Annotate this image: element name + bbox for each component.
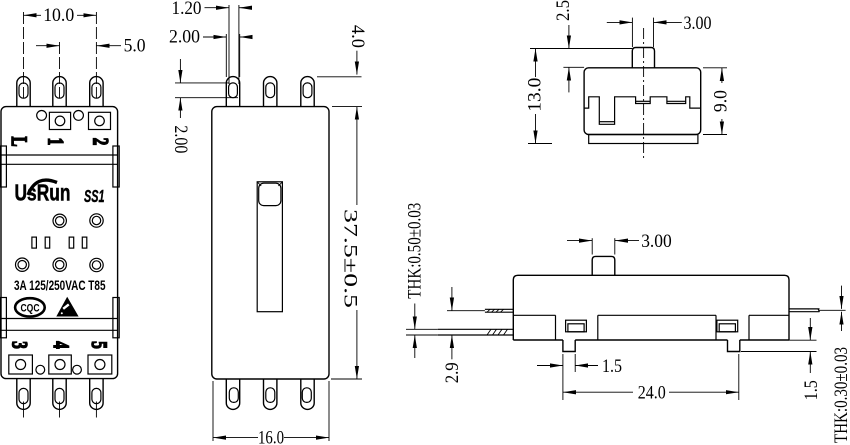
right boss outer <box>717 320 738 332</box>
dim 2.00 (hole height) lower arrow <box>179 98 181 118</box>
lower-left terminal <box>438 328 514 330</box>
dim 10.0 extension line left (pin centerline) <box>23 12 25 99</box>
dim 10.0 extension line right (pin centerline) <box>95 12 97 99</box>
bottom edge segments <box>513 339 563 341</box>
body outline (side view) <box>513 275 789 340</box>
dim 9.0 lower arrow <box>721 119 723 135</box>
bottom pin 4 hole <box>266 388 275 403</box>
right foot <box>728 340 740 352</box>
switch body (front view) <box>1 107 118 379</box>
cover tab right vertical 1 <box>715 315 717 340</box>
top rivet hole right <box>74 111 84 121</box>
right terminal <box>789 308 820 310</box>
cert triangle mark <box>56 297 78 317</box>
svg-text:1.20: 1.20 <box>172 0 202 19</box>
top terminal square 1 circle <box>55 116 65 126</box>
svg-text:2: 2 <box>88 138 113 146</box>
dim 3.00 right arrow and tail <box>654 21 682 23</box>
dim 1.5 (right) extension lines <box>789 339 817 341</box>
frame clip lower-right <box>113 298 119 338</box>
top terminal square 2 <box>89 112 111 129</box>
dim 1.20 extension lines <box>228 5 230 84</box>
svg-text:2.00: 2.00 <box>170 125 191 153</box>
bottom pin 5 <box>90 379 103 410</box>
svg-text:4: 4 <box>48 341 73 349</box>
bottom pin 3 <box>226 379 239 409</box>
dim 5.0 right arrow <box>96 45 121 47</box>
dim 1.5 (right) lower arrow <box>809 352 811 374</box>
dim 24.0 right arrow <box>669 391 739 393</box>
bottom pin 4 <box>264 379 277 409</box>
cover tab left vertical 2 <box>597 315 599 340</box>
lower-left terminal extension lines <box>406 328 438 330</box>
dim 3.00 left arrow <box>607 21 633 23</box>
base plate (end view) <box>589 135 698 144</box>
svg-text:5: 5 <box>86 341 111 349</box>
dim 4.0 extension line (pin top) <box>317 76 362 78</box>
top pin 2 <box>53 77 66 107</box>
bottom pin 5 hole <box>302 388 311 403</box>
dim 16.0 extension lines <box>212 381 214 441</box>
svg-text:3A 125/250VAC T85: 3A 125/250VAC T85 <box>14 278 106 293</box>
dim 5.0 extension line middle (pin centerline) <box>59 42 61 99</box>
dim 1.5 (left foot) extension lines <box>562 354 564 400</box>
svg-text:4.0: 4.0 <box>347 25 368 48</box>
dim 9.0 upper arrow <box>721 68 723 83</box>
svg-text:CQC: CQC <box>21 303 40 315</box>
dim THK 0.50 upper arrow <box>414 304 416 330</box>
lower-left terminal ticks <box>487 329 508 335</box>
upper-left terminal <box>485 308 513 310</box>
svg-text:3: 3 <box>7 341 32 349</box>
separation line right segment <box>749 314 789 316</box>
rivet row2 right <box>90 258 103 271</box>
left boss outer <box>566 320 587 332</box>
upper-left terminal extension line <box>447 310 485 312</box>
dim 1.5 (left foot) right arrow <box>575 365 598 367</box>
bottom pin 4 centerline <box>59 402 61 418</box>
rivet row1 right <box>90 214 103 227</box>
dim 2.00 (hole height) extension lines <box>175 82 229 84</box>
dim 3.00 extension lines <box>631 18 633 47</box>
rivet row2 mid <box>53 258 66 271</box>
dim 37.5 upper arrow <box>356 107 358 205</box>
svg-text:3.00: 3.00 <box>641 231 672 252</box>
dim 3.00 (side) extension lines <box>591 238 593 254</box>
bottom terminal square 4 <box>49 355 72 374</box>
dim 1.5 (right) upper arrow <box>809 318 811 340</box>
dim 24.0 left arrow <box>563 391 633 393</box>
svg-text:THK:0.50±0.03: THK:0.50±0.03 <box>405 203 426 299</box>
bottom pin 5 centerline <box>95 402 97 418</box>
dim 1.20 left arrow <box>205 7 230 9</box>
knob (side view) <box>592 256 615 275</box>
bottom pin 3 <box>17 379 30 410</box>
dim 2.00 left arrow <box>203 36 226 38</box>
body top extension line (left stub) <box>563 66 584 68</box>
svg-text:SS1: SS1 <box>84 186 105 206</box>
bottom pin 5 <box>301 379 314 409</box>
frame clip lower-left <box>0 298 6 338</box>
right terminal end tick <box>818 309 820 312</box>
bottom terminal square 3 <box>9 355 33 374</box>
top pin 3 <box>301 77 314 107</box>
frame clip upper-right <box>113 146 119 187</box>
dim 37.5 extension line (body top) <box>332 106 362 108</box>
top pin 1 hole <box>19 83 28 98</box>
svg-text:3.00: 3.00 <box>684 13 712 34</box>
contact window 1 <box>32 237 37 248</box>
bottom terminal square 4 circle <box>55 360 65 370</box>
dim THK 0.50 lower arrow <box>414 335 416 358</box>
top pin 3 <box>90 77 103 107</box>
contact window 4 <box>82 237 87 248</box>
bottom pin 4 <box>53 379 66 410</box>
cover/base separation line left segment <box>513 314 555 316</box>
top pin 3 hole <box>92 83 101 98</box>
dim 2.9 lower arrow <box>451 335 453 359</box>
bottom pin 5 hole <box>92 388 101 403</box>
svg-text:1: 1 <box>43 138 68 146</box>
contact window 3 <box>69 237 74 248</box>
dim 2.00 (hole height) upper arrow <box>179 59 181 83</box>
dim 37.5 extension line (body bottom) <box>331 378 362 380</box>
top pin 2 hole <box>55 83 64 98</box>
svg-text:13.0: 13.0 <box>525 78 546 112</box>
dim 2.00 right arrow <box>240 36 252 38</box>
dim 37.5 lower arrow <box>356 310 358 379</box>
svg-text:37.5±0.5: 37.5±0.5 <box>340 209 361 308</box>
right notch inner line <box>667 100 686 102</box>
dim 4.0 arrow <box>356 51 358 75</box>
center notch inner line <box>636 100 651 102</box>
svg-text:5.0: 5.0 <box>124 36 146 57</box>
dim 1.5 (left foot) left arrow <box>537 365 563 367</box>
dim 2.00 extension lines <box>225 34 227 77</box>
svg-text:L: L <box>6 136 31 146</box>
top pin 2 hole <box>266 83 275 98</box>
dim 5.0 left arrow <box>36 45 60 47</box>
top terminal square 2 circle <box>95 116 105 126</box>
dim 13.0 lower arrow <box>535 114 537 144</box>
frame clip upper-left <box>0 146 6 187</box>
svg-text:THK:0.30±0.03: THK:0.30±0.03 <box>831 347 850 443</box>
bottom pin 3 centerline <box>23 402 25 418</box>
bottom rivet hole left <box>36 365 45 374</box>
bottom terminal square 5 <box>88 355 112 374</box>
svg-text:2.9: 2.9 <box>442 362 463 383</box>
frame band lower line1 <box>1 318 118 320</box>
bottom pin 3 hole <box>229 388 238 403</box>
deep notch inner line <box>599 121 614 123</box>
dim 10.0 line right arrow <box>77 14 96 16</box>
svg-text:UsRun: UsRun <box>15 180 71 206</box>
contact window 2 <box>45 237 50 248</box>
rivet row1 left <box>53 214 66 227</box>
cover tab right vertical 2 <box>748 315 750 340</box>
dim THK 0.30 upper arrow <box>841 286 843 309</box>
svg-text:2.5: 2.5 <box>553 0 574 21</box>
cover tab left vertical 1 <box>555 315 557 340</box>
top pin 3 hole <box>303 83 312 98</box>
frame band upper line1 <box>1 154 118 156</box>
svg-text:1.5: 1.5 <box>602 356 622 377</box>
dim 24.0 extension line right <box>738 354 740 400</box>
dim 10.0 line left arrow <box>24 14 42 16</box>
left foot <box>563 340 575 352</box>
switch body (back view) <box>212 107 329 379</box>
dim 16.0 left arrow <box>213 437 258 439</box>
top pin 1 hole <box>229 83 238 98</box>
inner cavity profile <box>584 97 701 125</box>
bottom rivet hole right <box>73 365 82 374</box>
top pin 1 <box>226 77 239 107</box>
knob top extension line <box>530 48 632 50</box>
UsRun logo swoosh <box>28 180 57 195</box>
top pin 1 <box>17 77 30 107</box>
dim 16.0 right arrow <box>284 437 329 439</box>
frame band upper line2 <box>1 163 118 165</box>
slot corner chamfer left <box>258 183 261 186</box>
right boss inner <box>719 324 735 332</box>
frame band lower line2 <box>1 329 118 331</box>
slider knob <box>259 183 281 205</box>
svg-text:10.0: 10.0 <box>43 5 74 26</box>
slot corner chamfer right <box>278 183 281 186</box>
vertical centerline (dash-dot) <box>643 28 645 160</box>
rivet row2 left <box>16 258 29 271</box>
dim 13.0 upper arrow <box>535 49 537 78</box>
bottom pin 3 hole <box>19 388 28 403</box>
dim 3.00 (side) right arrow <box>615 240 639 242</box>
dim 2.9 upper arrow <box>451 287 453 311</box>
svg-text:24.0: 24.0 <box>638 382 666 403</box>
right terminal extension line <box>820 309 846 311</box>
svg-text:2.00: 2.00 <box>169 26 200 47</box>
slider slot <box>257 182 282 312</box>
svg-text:9.0: 9.0 <box>711 90 732 112</box>
dim 1.20 right arrow <box>239 7 251 9</box>
top rivet hole left <box>37 111 47 121</box>
upper-left terminal ticks <box>487 309 504 312</box>
dim 13.0 bottom extension line <box>528 143 552 145</box>
dim 3.00 (side) left arrow <box>567 240 592 242</box>
bottom terminal square 3 circle <box>16 360 26 370</box>
top pin 2 <box>264 77 277 107</box>
dim 9.0 extension lines <box>703 67 727 69</box>
dim 2.5 upper arrow <box>568 25 570 49</box>
bottom pin 4 hole <box>55 388 64 403</box>
left boss inner <box>568 324 584 332</box>
knob (end view) <box>632 48 654 68</box>
separation line middle segment <box>598 314 716 316</box>
dim 2.5 lower arrow <box>568 67 570 92</box>
bottom terminal square 5 circle <box>95 360 105 370</box>
top terminal square 1 <box>49 112 70 129</box>
CQC mark oval <box>15 298 45 316</box>
dim THK 0.30 lower arrow <box>841 312 843 331</box>
svg-text:1.5: 1.5 <box>801 380 822 400</box>
body (end view) <box>584 68 701 135</box>
svg-text:16.0: 16.0 <box>258 428 284 445</box>
